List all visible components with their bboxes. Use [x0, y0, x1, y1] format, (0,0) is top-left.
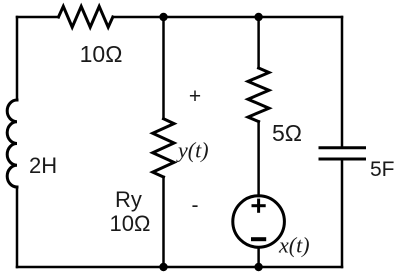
junction node bottom-middle	[159, 263, 167, 271]
svg-text:2H: 2H	[29, 153, 57, 178]
svg-text:x(t): x(t)	[278, 233, 310, 258]
wire middle branch upper	[162, 17, 165, 119]
svg-text:y(t): y(t)	[176, 138, 209, 163]
inductor L1 2H	[7, 100, 17, 187]
wire right lower segment	[341, 159, 344, 267]
junction node top-right	[254, 13, 262, 21]
resistor Ry 10ohm (middle vertical)	[153, 119, 174, 177]
junction node bottom-right	[254, 263, 262, 271]
capacitor C1 5F	[320, 148, 365, 159]
wire from R2 to source	[257, 122, 260, 197]
svg-text:+: +	[189, 85, 201, 108]
svg-text:10Ω: 10Ω	[80, 41, 123, 67]
wire right-middle branch upper	[257, 17, 260, 68]
svg-text:10Ω: 10Ω	[110, 211, 151, 236]
wire top-left segment	[17, 16, 59, 19]
wire bottom segment	[17, 266, 342, 269]
svg-text:Ry: Ry	[115, 187, 142, 212]
resistor R1 10ohm (top horizontal)	[59, 6, 113, 27]
wire right upper segment	[341, 17, 344, 147]
svg-text:5Ω: 5Ω	[272, 120, 302, 146]
svg-text:5F: 5F	[370, 158, 395, 181]
wire top middle segment	[113, 16, 342, 19]
junction node top-middle	[159, 13, 167, 21]
svg-text:-: -	[192, 194, 199, 217]
wire left lower segment	[16, 187, 19, 267]
voltage source V1 x(t)	[233, 196, 285, 248]
wire from source to bottom	[257, 247, 260, 267]
resistor R2 5ohm (vertical)	[248, 68, 269, 122]
wire left upper segment	[16, 17, 19, 100]
wire middle branch lower	[162, 177, 165, 267]
